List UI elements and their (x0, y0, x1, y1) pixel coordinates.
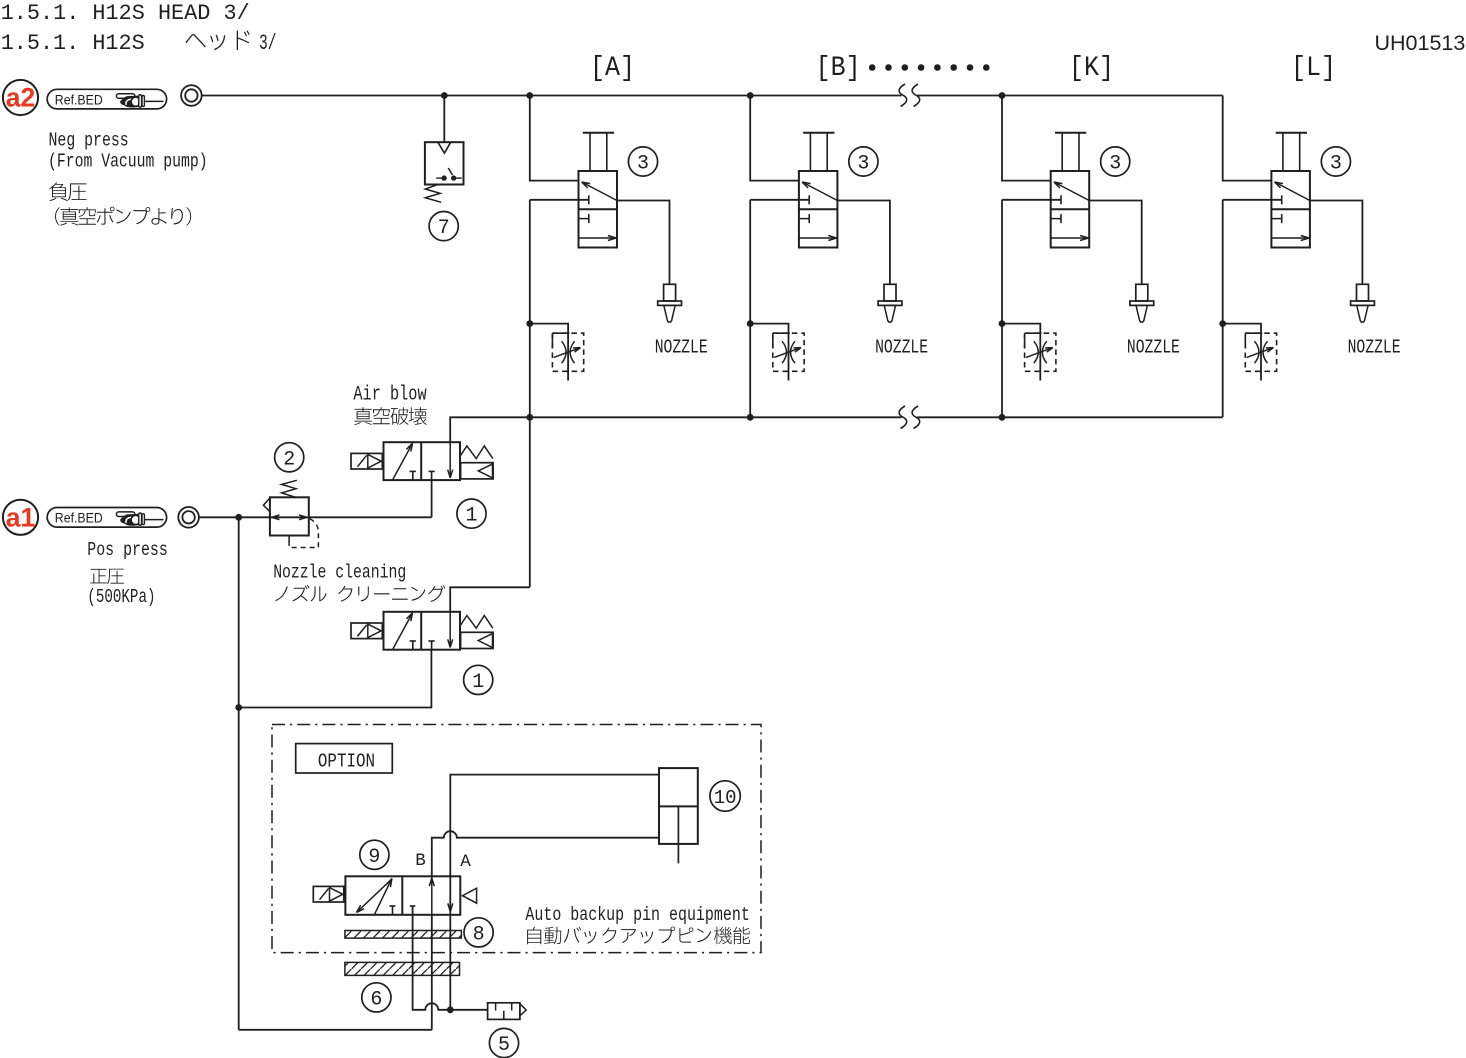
svg-text:(From Vacuum pump): (From Vacuum pump) (48, 151, 208, 173)
label 正圧 (90, 569, 124, 584)
wire: valve [L] left port to air-blow riser (1223, 199, 1282, 201)
node [L] vacuum branch riser (1223, 96, 1272, 181)
svg-text:Ref.BED: Ref.BED (55, 92, 103, 107)
svg-text:3: 3 (857, 153, 869, 176)
backup pin cylinder (10) (659, 768, 698, 844)
wire: throttle branch [A] (530, 324, 568, 381)
wire: valve [B] left port to air-blow riser (750, 199, 809, 201)
wire: throttle branch [B] (750, 324, 788, 381)
nozzle cleaning: exhaust port box (461, 632, 494, 648)
node a1 marker circle (3, 500, 38, 535)
balloon 9 (360, 840, 389, 869)
junction dot manifold [B] (747, 414, 754, 421)
label ノズル クリーニング (275, 585, 445, 602)
balloon 3 [B] (849, 147, 878, 176)
svg-text:6: 6 (370, 988, 382, 1011)
svg-text:1: 1 (465, 505, 477, 528)
balloon 7 (429, 212, 458, 241)
svg-text:Pos press: Pos press (87, 539, 168, 561)
junction dot manifold [A] (526, 414, 533, 421)
svg-text:3/: 3/ (259, 31, 277, 56)
junction dot nozzle cleaning feed (235, 704, 242, 711)
valve 9 return triangle (463, 888, 477, 903)
valve 9 left cell crossed arrows (357, 879, 393, 913)
vacuum switch (7) body (425, 142, 464, 184)
solenoid valve (1) nozzle cleaning: body (384, 612, 461, 650)
balloon 6 (362, 983, 391, 1012)
svg-text:[A]: [A] (590, 53, 635, 84)
svg-text:3: 3 (1109, 153, 1121, 176)
Ref.BED pill a1 (47, 508, 166, 528)
wire: a1 feed drop (238, 517, 240, 1030)
air blow: exhaust port box (461, 463, 494, 479)
junction dot throttle branch [B] (747, 320, 754, 327)
wire: valve 9 exhaust to silencer (413, 906, 488, 1010)
wire: feed riser through valve 9 lower part (431, 915, 433, 1030)
wire: valve [K] to nozzle (1089, 201, 1142, 285)
svg-text:1.5.1. H12S HEAD 3/: 1.5.1. H12S HEAD 3/ (1, 1, 250, 26)
svg-text:Auto backup pin equipment: Auto backup pin equipment (525, 904, 749, 926)
Ref.BED pill a2 (47, 89, 166, 109)
connector a2 (double circle) (181, 85, 202, 106)
svg-text:5: 5 (498, 1034, 510, 1057)
balloon 3 [A] (628, 147, 657, 176)
flow restrictor (meter valve) [A] (552, 333, 583, 371)
switch contacts inside 7 (436, 177, 441, 179)
svg-text:OPTION: OPTION (318, 751, 375, 773)
svg-text:[B]: [B] (816, 53, 861, 84)
wire: air-blow riser [B] (749, 200, 751, 417)
wire: throttle branch [L] (1223, 324, 1261, 381)
nozzle symbol [A] (664, 284, 676, 301)
wire: valve [A] to nozzle (617, 201, 670, 285)
svg-text:3: 3 (1330, 153, 1342, 176)
svg-text:A: A (460, 852, 471, 872)
wire: air blow valve feed riser (431, 480, 433, 517)
svg-text:9: 9 (368, 846, 380, 869)
svg-text:2: 2 (283, 448, 295, 471)
svg-text:a2: a2 (6, 83, 35, 113)
flow restrictor (meter valve) [L] (1245, 333, 1276, 371)
flow restrictor (meter valve) [K] (1025, 333, 1056, 371)
svg-text:8: 8 (473, 923, 485, 946)
valve 9 left cell blocked T (389, 905, 395, 907)
air blow: return spring (460, 446, 493, 459)
wire: main vacuum line (202, 95, 902, 97)
wire: port B tube to cylinder (with crossover hump) (432, 831, 659, 876)
air blow: right cell feed port T (429, 470, 435, 472)
balloon 1 (air blow) (457, 499, 486, 528)
svg-text:Air blow: Air blow (353, 383, 427, 406)
nozzle symbol [L] (1357, 284, 1369, 301)
wire: air-blow riser [L] (1222, 200, 1224, 417)
wire: valve [K] left port to air-blow riser (1002, 199, 1061, 201)
label 負圧 (49, 182, 86, 201)
OPTION dash-dot border (272, 725, 761, 953)
wire: port A tube to cylinder (450, 775, 659, 912)
junction dots on main line (441, 92, 448, 99)
nozzle cleaning: left cell flow arrow (393, 613, 413, 649)
solenoid valve (9) body (345, 876, 460, 915)
node a2 marker circle (3, 80, 38, 115)
pressure regulator (2) (270, 497, 309, 535)
node [A] vacuum branch riser (530, 96, 579, 181)
node [K] vacuum branch riser (1002, 96, 1051, 181)
svg-text:10: 10 (714, 787, 737, 809)
wire: feed through valve 9 (up arrow) (431, 876, 433, 915)
air blow: left cell blocked port T (410, 470, 416, 472)
nozzle cleaning: right cell down-flow arrow (449, 612, 451, 648)
balloon 3 [L] (1321, 147, 1350, 176)
nozzle symbol [B] (884, 284, 896, 301)
wire: option feed bottom (239, 1029, 432, 1031)
wire: air blow manifold (450, 417, 901, 442)
svg-text:UH01513: UH01513 (1375, 31, 1466, 55)
junction dot throttle branch [A] (526, 320, 533, 327)
junction dot feed (235, 514, 242, 521)
label 真空破壊 (354, 407, 427, 425)
svg-text:(500KPa): (500KPa) (87, 586, 155, 608)
svg-text:NOZZLE: NOZZLE (655, 336, 708, 358)
svg-text:1.5.1. H12S: 1.5.1. H12S (1, 31, 145, 56)
svg-text:NOZZLE: NOZZLE (1348, 336, 1401, 358)
3/2 pilot valve (3) [L] (1271, 171, 1310, 248)
air blow: solenoid actuator (351, 453, 382, 469)
svg-text:NOZZLE: NOZZLE (875, 336, 928, 358)
pointing hand icon a2 (116, 94, 163, 108)
junction dot exhaust line (447, 1006, 454, 1013)
flow restrictor (meter valve) [B] (773, 333, 804, 371)
svg-text:Ref.BED: Ref.BED (55, 511, 103, 526)
balloon 3 [K] (1101, 147, 1130, 176)
3/2 pilot valve (3) [A] (579, 171, 618, 248)
svg-text:[K]: [K] (1069, 53, 1114, 84)
nozzle cleaning: return spring (460, 616, 493, 629)
label (真空ポンプより) (55, 207, 191, 226)
node [B] vacuum branch riser (750, 96, 799, 181)
regulator pilot dashed loop (288, 536, 290, 542)
wire: valve [L] to nozzle (1310, 201, 1363, 285)
spring of 7 (425, 185, 441, 203)
pointing hand icon a1 (116, 512, 163, 526)
air blow: left cell flow arrow (393, 443, 413, 479)
3/2 pilot valve (3) [K] (1051, 171, 1090, 248)
wire: nozzle cleaning valve top port to column A riser (450, 587, 530, 612)
wire: throttle branch [K] (1002, 324, 1040, 381)
silencer (5) (488, 1003, 520, 1020)
valve 9 solenoid actuator (313, 886, 344, 902)
svg-text:Neg press: Neg press (49, 129, 129, 151)
wire: drop to vacuum switch 7 (443, 96, 445, 143)
nozzle cleaning: left cell blocked port T (410, 640, 416, 642)
3/2 pilot valve (3) [B] (799, 171, 838, 248)
nozzle cleaning: solenoid actuator (351, 623, 382, 639)
wire: air-blow riser [K] (1001, 200, 1003, 417)
valve 9 right cell feed T and exhaust stem (410, 905, 416, 907)
nozzle cleaning: right cell feed port T (429, 640, 435, 642)
connector a1 (double circle) (178, 507, 199, 528)
wire: air-blow riser [A] (529, 200, 531, 588)
svg-text:a1: a1 (6, 502, 35, 532)
junction dot manifold [K] (999, 414, 1006, 421)
wire: valve [B] to nozzle (837, 201, 890, 285)
svg-text:NOZZLE: NOZZLE (1127, 336, 1180, 358)
balloon 5 (489, 1028, 518, 1057)
wire: positive pressure feed (199, 516, 432, 518)
backup plate (8) hatched (345, 931, 462, 939)
break squiggles main line (899, 84, 907, 107)
svg-text:[L]: [L] (1291, 53, 1336, 84)
junction dot throttle branch [K] (999, 320, 1006, 327)
svg-text:7: 7 (438, 217, 450, 240)
break squiggles manifold (899, 406, 907, 429)
svg-text:1: 1 (472, 671, 484, 694)
svg-text:3: 3 (637, 153, 649, 176)
balloon 10 (710, 781, 740, 811)
PCB plate (6) hatched (345, 962, 460, 975)
wire: nozzle cleaning feed (239, 650, 432, 708)
junction dot throttle branch [L] (1219, 320, 1226, 327)
wire: valve [A] left port to air-blow riser (530, 199, 589, 201)
svg-text:B: B (415, 851, 426, 871)
ellipsis dots (869, 64, 876, 71)
balloon 1 (nozzle cleaning) (464, 665, 493, 694)
svg-text:Nozzle cleaning: Nozzle cleaning (273, 562, 406, 584)
label 自動バックアップピン機能 (527, 927, 750, 945)
balloon 8 (464, 918, 493, 947)
balloon 2 (275, 443, 304, 472)
air blow: right cell down-flow arrow (449, 442, 451, 478)
OPTION label box (296, 744, 393, 773)
nozzle symbol [K] (1136, 284, 1148, 301)
solenoid valve (1) air blow: body (384, 442, 461, 480)
